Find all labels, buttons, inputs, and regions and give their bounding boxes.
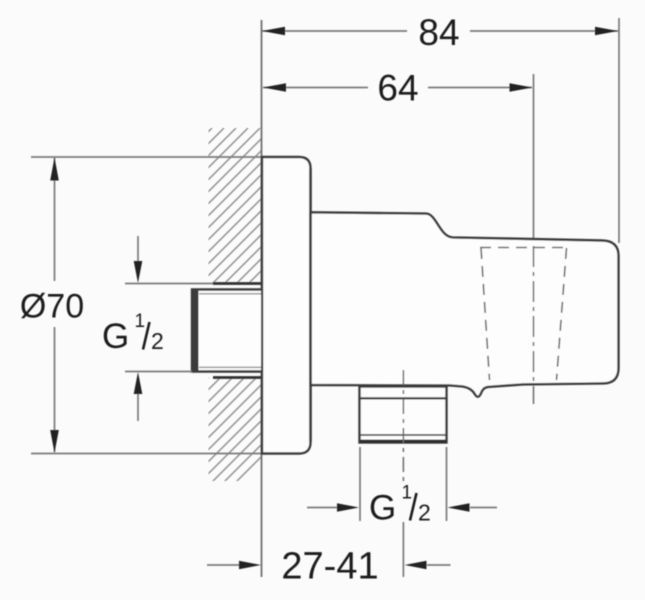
wall hole bottom edge (213, 376, 261, 379)
outlet centre line (402, 370, 404, 481)
svg-text:27-41: 27-41 (281, 546, 378, 588)
G1/2 left dimension upper (125, 283, 213, 285)
flange right edge over body (309, 169, 311, 443)
label G1/2 left (102, 311, 164, 356)
outlet nipple bottom (360, 387, 447, 443)
nipple chamfer band (191, 289, 199, 373)
svg-text:1: 1 (135, 311, 146, 332)
body outline (311, 212, 619, 396)
G1/2 bottom extension lines (359, 447, 361, 521)
holder phantom outline (480, 247, 567, 249)
dimension line 84 (262, 30, 407, 32)
label G1/2 bottom (369, 483, 431, 528)
wall hatch bottom section (104, 326, 392, 482)
outlet shoulder line (360, 397, 447, 399)
extension line 84 right (618, 18, 620, 243)
G1/2 left dimension lower (125, 371, 192, 373)
svg-text:1: 1 (402, 483, 413, 504)
dimension 27-41 (207, 564, 240, 566)
wall surface line (also extension line for 84/64/27-41) (261, 20, 263, 577)
wall hole top edge (213, 282, 261, 285)
extension line d70 top (31, 156, 263, 158)
extension line d70 bottom (31, 453, 263, 455)
inlet nipple G1/2 left (192, 290, 261, 372)
svg-text:G: G (369, 489, 396, 528)
flange escutcheon (262, 157, 311, 454)
svg-text:64: 64 (377, 68, 418, 109)
svg-text:2: 2 (151, 328, 164, 354)
svg-text:G: G (102, 317, 129, 356)
dimension line 64 (263, 87, 368, 89)
svg-text:2: 2 (418, 500, 431, 526)
wall hatch top section (56, 128, 404, 284)
outlet chamfer lines (361, 434, 446, 436)
G1/2 bottom dimension (307, 507, 337, 509)
dimension line d70 (54, 158, 56, 281)
holder centre line (533, 246, 535, 404)
svg-text:Ø70: Ø70 (20, 288, 84, 326)
svg-text:84: 84 (418, 12, 459, 53)
extension line 64 right / holder centre upper (533, 74, 535, 246)
nipple thread relief lines (199, 293, 261, 295)
